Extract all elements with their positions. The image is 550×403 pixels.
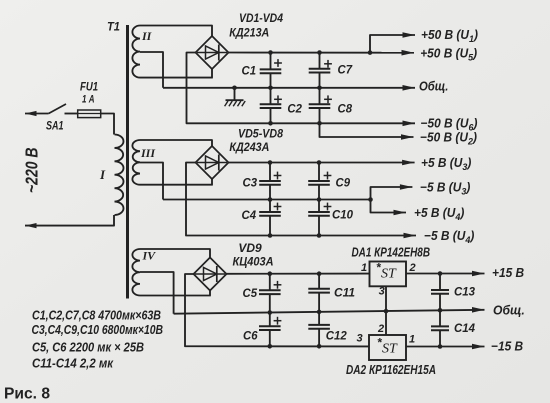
switch SA1 — [49, 104, 66, 114]
svg-text:C3: C3 — [243, 176, 258, 190]
capacitor C6 — [259, 313, 281, 347]
label DA2 KR1162EN15A — [346, 362, 436, 377]
wire IV mid tap — [140, 272, 174, 314]
label DA1 KR142EN8V — [352, 244, 431, 259]
svg-text:C9: C9 — [336, 176, 351, 190]
arrow -50V U2 — [401, 134, 414, 140]
wire III bottom tap — [140, 184, 213, 186]
label I — [99, 167, 106, 182]
label obshch top — [419, 79, 448, 94]
label -5V U4 — [424, 229, 474, 245]
svg-text:Рис. 8: Рис. 8 — [4, 386, 50, 403]
node ground junction — [232, 86, 237, 91]
svg-text:C5, C6 2200 мк × 25В: C5, C6 2200 мк × 25В — [32, 340, 144, 355]
wire +50V bus — [229, 52, 415, 54]
node C9 col on mid bus — [317, 197, 322, 202]
fuse FU1 — [78, 110, 101, 118]
wire fuse to winding I — [101, 114, 115, 135]
svg-text:КЦ403А: КЦ403А — [233, 255, 274, 269]
svg-text:C11-C14 2,2 мк: C11-C14 2,2 мк — [32, 356, 114, 371]
label -50V U2 — [420, 130, 477, 146]
arrow -15V — [472, 344, 485, 350]
node C13 col on obshch — [438, 308, 443, 313]
svg-text:−15 В: −15 В — [491, 339, 523, 353]
svg-text:~220 В: ~220 В — [22, 148, 42, 194]
capacitor C1 — [260, 53, 282, 88]
bridge VD9 — [194, 258, 227, 291]
wire II mid tap — [140, 52, 163, 88]
svg-text:C10: C10 — [332, 208, 353, 222]
svg-text:III: III — [140, 146, 156, 160]
svg-text:DA1 КР142ЕН8В: DA1 КР142ЕН8В — [352, 244, 431, 259]
arrow +15V — [472, 271, 485, 277]
svg-text:1: 1 — [409, 334, 415, 346]
svg-text:2: 2 — [377, 323, 384, 335]
label C8 — [338, 101, 353, 115]
label C6 — [243, 329, 258, 343]
wire mid bus sec2 — [163, 199, 371, 201]
arrow obshch top — [403, 85, 416, 91]
wire DA1 pin3 down — [385, 286, 387, 335]
label C11 — [334, 286, 355, 300]
capacitor C12 — [308, 312, 330, 346]
capacitor C14 — [431, 310, 449, 346]
wire pos bus sec3 — [227, 273, 370, 275]
arrow obshch bottom — [472, 307, 485, 313]
svg-text:C3,C4,C9,C10 6800мк×10В: C3,C4,C9,C10 6800мк×10В — [32, 322, 164, 337]
svg-text:C12: C12 — [326, 329, 347, 343]
node C1 col on +50 bus — [268, 50, 273, 55]
capacitor C11 — [308, 274, 330, 312]
ground — [225, 88, 246, 107]
op-amp DA2 — [369, 335, 406, 360]
op-amp DA1 — [370, 262, 407, 287]
node C10 col on -5 bus — [317, 233, 322, 238]
note line 3 — [32, 340, 144, 355]
svg-text:C13: C13 — [454, 285, 475, 299]
arrow +5V U4 — [394, 210, 407, 216]
svg-text:T1: T1 — [107, 20, 120, 34]
capacitor C9 — [308, 163, 331, 200]
node C14 col on -15 — [438, 344, 443, 349]
label C2 — [287, 101, 302, 115]
arrow +50V U1 — [403, 32, 416, 38]
node C6 col on neg bus — [268, 344, 273, 349]
wire switch-fuse — [65, 113, 78, 115]
label FU1 — [80, 80, 98, 94]
svg-text:C14: C14 — [454, 321, 475, 335]
label +15V — [492, 265, 524, 279]
node C5 col on pos bus — [268, 271, 273, 276]
label +50V U5 — [420, 46, 477, 62]
svg-text:Общ.: Общ. — [493, 303, 525, 317]
wire DA2 output -15 — [406, 346, 485, 348]
node mid branch — [368, 197, 373, 202]
label C9 — [336, 176, 351, 190]
node C3 col on +5 bus — [268, 160, 273, 165]
label +5V U4 — [414, 206, 464, 222]
input arrow top — [25, 111, 37, 116]
wire bridge2 bottom stub — [211, 179, 213, 185]
svg-text:SA1: SA1 — [46, 119, 64, 133]
arrow -5V U3 — [400, 184, 413, 190]
label C14 — [454, 321, 475, 335]
winding IV — [132, 249, 140, 296]
wire IV bottom tap — [140, 295, 211, 297]
winding II — [132, 26, 140, 78]
node C11 col on pos bus — [317, 271, 322, 276]
note line 4 — [32, 356, 114, 371]
node C11 col on mid bus — [317, 310, 322, 315]
wire +5V bus — [229, 162, 415, 164]
label VD5-VD8 — [238, 126, 283, 140]
label ~220V — [22, 148, 42, 194]
wire -5U3 +5U4 branch — [371, 187, 413, 213]
svg-text:I: I — [99, 167, 106, 182]
arrow +5V U3 — [402, 160, 415, 166]
pin 1 DA1 — [361, 262, 367, 274]
label *ST DA1 — [376, 261, 397, 282]
label +50V U1 — [421, 28, 478, 44]
label C5 — [243, 286, 258, 300]
svg-text:ST: ST — [381, 267, 397, 282]
bridge VD1-VD4 — [196, 36, 229, 69]
svg-text:C7: C7 — [338, 63, 354, 77]
wire bridge2 left to -5 bus — [186, 163, 416, 236]
label +5V U3 — [421, 156, 471, 172]
wire winding I to arrow — [25, 215, 114, 226]
svg-text:C4: C4 — [242, 208, 257, 222]
node C13 col on +15 — [438, 271, 443, 276]
pin 2 DA2 — [377, 323, 384, 335]
arrow -50V U6 — [403, 121, 416, 127]
wire 220V input top — [25, 113, 49, 115]
label III — [140, 146, 156, 160]
winding III — [132, 140, 140, 185]
wire obshch bus top — [163, 87, 415, 89]
capacitor C4 — [259, 200, 281, 236]
transformer T1 label — [107, 20, 120, 34]
svg-text:1 А: 1 А — [82, 94, 95, 106]
svg-text:VD9: VD9 — [238, 241, 262, 255]
label obshch bottom — [493, 303, 525, 317]
input arrow bottom — [25, 223, 37, 228]
label -5V U3 — [420, 180, 470, 196]
wire II bottom tap — [140, 77, 213, 79]
svg-text:+15 В: +15 В — [492, 265, 524, 279]
wire -50V U2 branch — [320, 123, 414, 137]
wire bridge3 bottom stub — [209, 291, 211, 296]
svg-text:C1,C2,C7,C8 4700мк×63В: C1,C2,C7,C8 4700мк×63В — [32, 308, 161, 323]
label -15V — [491, 339, 523, 353]
wire bridge1 left to -50 bus — [187, 53, 416, 124]
note line 2 — [32, 322, 164, 337]
label C4 — [242, 208, 257, 222]
wire bridge1 bottom stub — [211, 69, 213, 78]
node +50 branch — [368, 50, 373, 55]
svg-text:КД243А: КД243А — [229, 140, 269, 154]
capacitor C7 — [309, 53, 332, 88]
wire IV top tap — [140, 249, 210, 258]
label VD9 — [238, 241, 262, 255]
svg-text:2: 2 — [409, 262, 416, 274]
node C2 col on -50 bus — [268, 121, 273, 126]
wire III top tap — [140, 140, 212, 146]
wire bridge3 left to neg bus — [185, 274, 369, 346]
svg-text:VD5-VD8: VD5-VD8 — [238, 126, 283, 140]
svg-text:КД213А: КД213А — [229, 25, 269, 39]
label C10 — [332, 208, 353, 222]
svg-text:3: 3 — [357, 333, 363, 345]
capacitor C8 — [309, 88, 332, 124]
capacitor C10 — [308, 200, 331, 236]
node C4 col on -5 bus — [268, 233, 273, 238]
bridge VD5-VD8 — [196, 146, 229, 179]
capacitor C13 — [431, 274, 449, 311]
svg-text:C6: C6 — [243, 329, 258, 343]
caption Ris. 8 — [4, 386, 50, 403]
node C7 col on obshch — [317, 86, 322, 91]
pin 2 DA1 — [409, 262, 416, 274]
note line 1 — [32, 308, 161, 323]
svg-text:FU1: FU1 — [80, 80, 98, 94]
capacitor C2 — [260, 88, 282, 124]
svg-text:C1: C1 — [242, 63, 257, 77]
svg-text:II: II — [141, 29, 153, 43]
label KD213A — [229, 25, 269, 39]
svg-text:ST: ST — [382, 342, 398, 357]
svg-text:C8: C8 — [338, 101, 353, 115]
svg-text:C2: C2 — [287, 101, 302, 115]
label VD1-VD4 — [239, 11, 283, 25]
node C8 col on -50 bus — [317, 121, 322, 126]
svg-text:DA2 КР1162ЕН15А: DA2 КР1162ЕН15А — [346, 362, 436, 377]
node C3 col on mid bus — [268, 197, 273, 202]
label C3 — [243, 176, 258, 190]
svg-text:1: 1 — [361, 262, 367, 274]
capacitor C5 — [259, 274, 281, 313]
svg-text:IV: IV — [142, 249, 157, 263]
node C1 col on obshch — [268, 86, 273, 91]
wire mid bus sec3 (obshch) — [174, 310, 485, 314]
label II — [141, 29, 153, 43]
svg-text:VD1-VD4: VD1-VD4 — [239, 11, 283, 25]
label 1A — [82, 94, 95, 106]
node C9 col on +5 bus — [317, 160, 322, 165]
label KC403A — [233, 255, 274, 269]
node C7 col on +50 bus — [317, 50, 322, 55]
svg-text:3: 3 — [379, 286, 385, 298]
pin 3 DA1 — [379, 286, 385, 298]
wire III mid tap — [140, 163, 163, 200]
label -50V U6 — [421, 116, 478, 132]
label C12 — [326, 329, 347, 343]
label SA1 — [46, 119, 64, 133]
transformer core — [126, 25, 129, 299]
svg-text:C5: C5 — [243, 286, 258, 300]
arrow +50V U5 — [402, 50, 415, 56]
node C5 col on mid bus — [268, 310, 273, 315]
node pin3 on obshch — [384, 309, 389, 314]
capacitor C3 — [259, 163, 281, 200]
pin 1 DA2 — [409, 334, 415, 346]
label C7 — [338, 63, 354, 77]
wire +50V U1 branch — [370, 35, 415, 53]
pin 3 DA2 — [357, 333, 363, 345]
arrow -5V U4 — [404, 233, 417, 239]
node C12 col on neg bus — [317, 344, 322, 349]
svg-text:Общ.: Общ. — [419, 79, 448, 94]
label C1 — [242, 63, 257, 77]
wire II top tap — [140, 26, 212, 37]
label IV — [142, 249, 157, 263]
winding I primary — [115, 135, 124, 216]
label *ST DA2 — [377, 336, 398, 357]
svg-text:C11: C11 — [334, 286, 355, 300]
label C13 — [454, 285, 475, 299]
wire DA1 output +15 — [406, 273, 485, 275]
label KD243A — [229, 140, 269, 154]
